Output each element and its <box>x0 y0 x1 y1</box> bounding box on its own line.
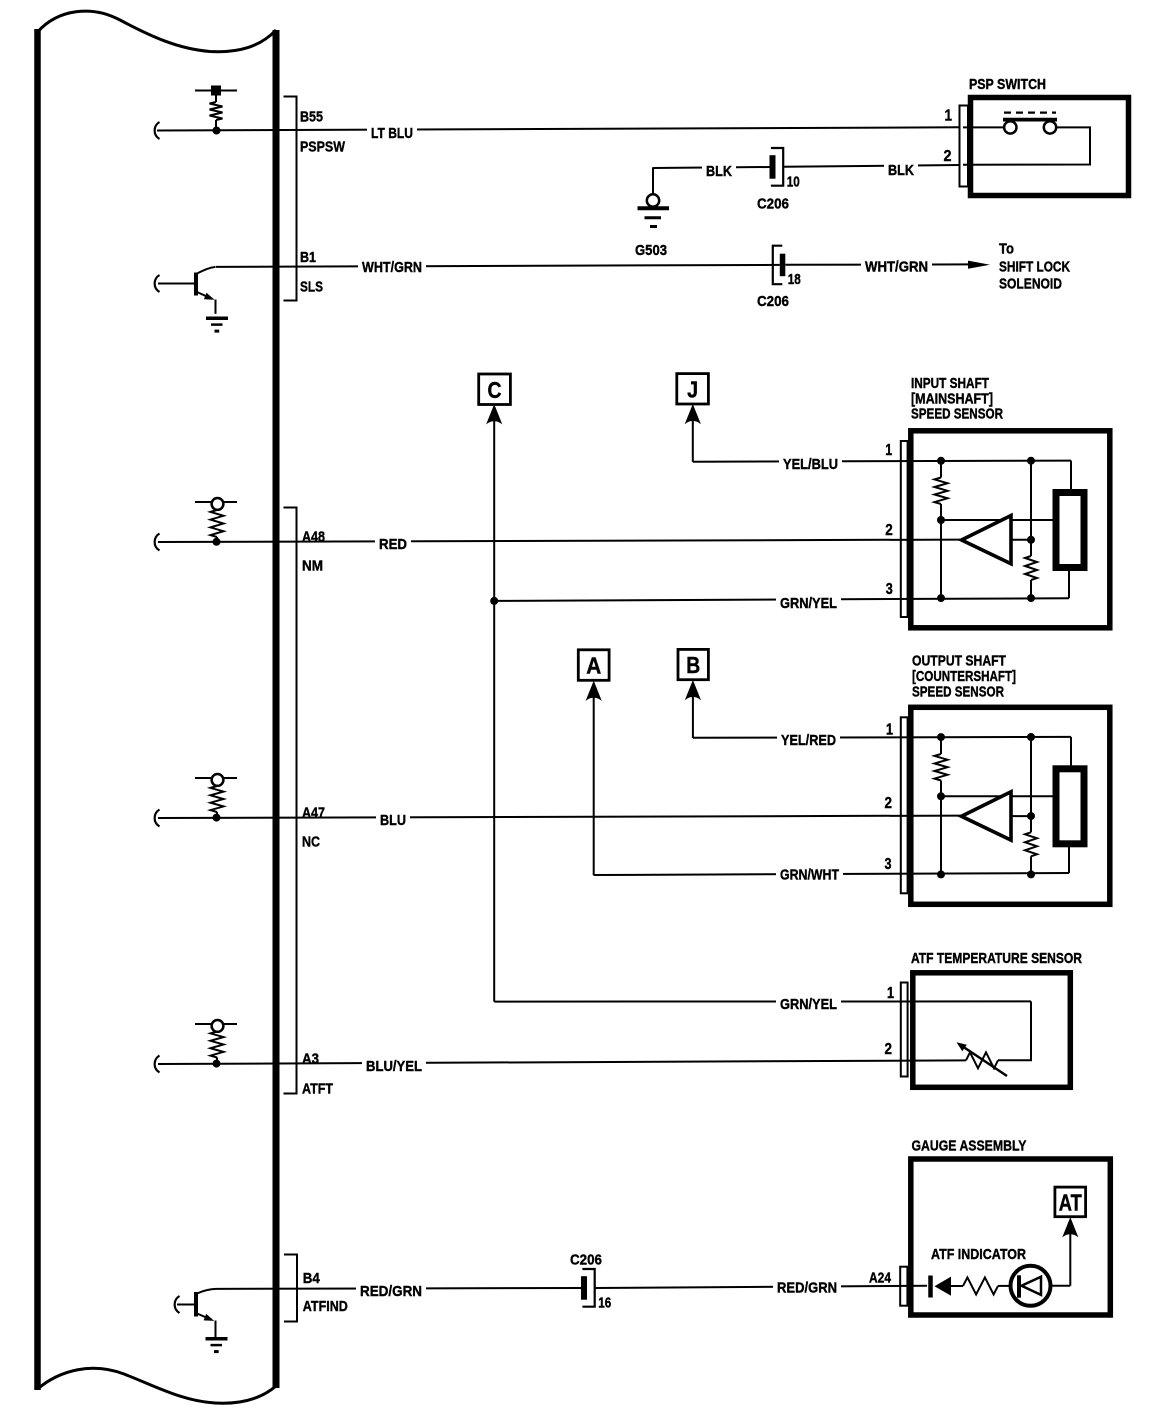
control module (left box, torn top/bottom edges) <box>38 11 277 1403</box>
gauge assembly box <box>911 1159 1111 1315</box>
output sensor resistor R-a (left) <box>935 737 948 874</box>
PSP switch blade travel (dashed) <box>1004 111 1056 113</box>
input speed sensor box <box>911 431 1110 628</box>
svg-text:2: 2 <box>885 1041 893 1058</box>
svg-text:BLU: BLU <box>380 812 406 829</box>
connector C206 pin 10 <box>770 148 800 191</box>
svg-text:1: 1 <box>886 722 893 739</box>
net A wire down to GRN/WHT <box>593 698 595 876</box>
input sensor bottom rail rise to pickup coil <box>1068 569 1070 598</box>
module pin bracket B4 <box>284 1255 297 1322</box>
junction dot left rail mid <box>937 516 945 524</box>
diode D1 (ATF indicator) <box>931 1276 952 1298</box>
svg-text:C206: C206 <box>757 293 789 310</box>
junction dot at A47 <box>213 814 221 822</box>
PSP switch contact 2 <box>1044 121 1056 133</box>
svg-text:BLK: BLK <box>888 162 914 179</box>
label BLU <box>376 809 410 829</box>
pull-up resistor at pin A48 <box>195 498 237 542</box>
PSP switch contact 1 <box>1004 121 1016 133</box>
svg-text:ATF INDICATOR: ATF INDICATOR <box>931 1246 1026 1263</box>
svg-text:OUTPUT SHAFT: OUTPUT SHAFT <box>912 653 1006 670</box>
ground symbol (Q2 emitter) <box>206 1337 228 1341</box>
wire resistor to indicator lamp <box>998 1285 1010 1287</box>
net C vertical wire <box>493 421 495 1002</box>
wire lamp to net AT <box>1051 1285 1071 1287</box>
connector C206 pin 16 <box>581 1269 611 1312</box>
pull-up resistor at pin A3 <box>195 1020 237 1064</box>
title INPUT SHAFT [MAINSHAFT] SPEED SENSOR <box>911 375 1003 423</box>
amp output wire (output sensor) <box>1011 815 1031 817</box>
PSP switch connector bar <box>960 106 969 187</box>
pickup coil (input sensor) <box>1056 493 1084 568</box>
svg-text:BLK: BLK <box>706 163 732 180</box>
arrow head for A <box>587 682 601 700</box>
svg-text:B1: B1 <box>300 249 316 266</box>
svg-text:C: C <box>488 377 502 403</box>
frayed wire end (B55 internal) <box>155 122 160 139</box>
svg-text:10: 10 <box>787 174 800 191</box>
wire BLK: ground G503 to connector C206-10 <box>653 167 770 195</box>
svg-text:[COUNTERSHAFT]: [COUNTERSHAFT] <box>912 668 1016 685</box>
svg-text:YEL/RED: YEL/RED <box>781 732 836 749</box>
junction dot at A48 <box>213 538 221 546</box>
PSP switch box <box>971 98 1129 196</box>
ATF sensor connector bar <box>901 983 908 1077</box>
title OUTPUT SHAFT [COUNTERSHAFT] SPEED SENSOR <box>912 653 1016 701</box>
svg-text:B55: B55 <box>300 109 323 126</box>
arrowhead to shift lock solenoid <box>968 261 990 269</box>
svg-text:BLU/YEL: BLU/YEL <box>366 1058 422 1075</box>
svg-text:18: 18 <box>788 271 801 288</box>
svg-text:1: 1 <box>887 985 894 1002</box>
frayed wire end (A3 internal) <box>155 1056 160 1073</box>
svg-text:G503: G503 <box>635 242 667 259</box>
label YEL/BLU <box>779 453 842 473</box>
resistor (ATF indicator series) <box>963 1277 998 1294</box>
ATF indicator lamp (LED in circle) <box>1011 1266 1051 1306</box>
junction dots output bottom rail <box>937 870 1035 878</box>
frayed wire end (A47 internal) <box>155 810 160 827</box>
output sensor connector bar <box>901 717 908 893</box>
wire RED: pin A48 to input sensor pin 2 (amp input) <box>158 540 961 542</box>
junction dots output top rail <box>937 733 1035 741</box>
input sensor connector bar <box>901 441 908 617</box>
op-amp U-in (comparator, input sensor) <box>962 516 1012 564</box>
svg-text:AT: AT <box>1059 1190 1082 1216</box>
arrow head for B <box>686 681 700 699</box>
wire GRN/WHT: net A to output sensor pin 3 / bottom rail <box>594 873 1069 875</box>
svg-text:C206: C206 <box>570 1252 602 1269</box>
thermistor arrow <box>957 1042 1008 1076</box>
net B wire down to YEL/RED <box>692 697 694 738</box>
svg-text:ATF TEMPERATURE SENSOR: ATF TEMPERATURE SENSOR <box>911 950 1082 967</box>
module pins bracket A48/A47/A3 <box>284 508 297 1094</box>
svg-text:GRN/YEL: GRN/YEL <box>780 595 837 612</box>
wire YEL/RED: net B to output sensor pin 1 / top rail <box>693 736 1071 739</box>
ATF sensor internal wire pin1 to thermistor <box>998 1001 1031 1060</box>
wire YEL/BLU: net J to input sensor pin 1 and top rail <box>693 461 1071 462</box>
svg-text:A24: A24 <box>869 1270 892 1287</box>
label BLK (right) <box>884 159 918 179</box>
output sensor bottom rail rise to pickup coil <box>1068 845 1070 873</box>
svg-text:2: 2 <box>944 148 952 165</box>
label GRN/YEL <box>776 592 841 612</box>
svg-text:INPUT SHAFT: INPUT SHAFT <box>911 375 989 392</box>
wire WHT/GRN: pin B1 to connector C206-18 <box>216 265 780 267</box>
amp output wire <box>1011 539 1031 541</box>
op-amp U-out (comparator, output sensor) <box>962 792 1012 840</box>
label BLK (left) <box>702 160 736 180</box>
PSP switch internal wire contact2 to pin 2 <box>963 127 1090 164</box>
label RED/GRN (right) <box>773 1277 841 1297</box>
svg-text:PSP SWITCH: PSP SWITCH <box>969 76 1046 93</box>
svg-text:SHIFT LOCK: SHIFT LOCK <box>999 259 1070 276</box>
connector arrow J (letter box) <box>677 374 709 404</box>
svg-text:B4: B4 <box>303 1270 321 1287</box>
svg-text:GRN/YEL: GRN/YEL <box>780 996 837 1013</box>
svg-text:WHT/GRN: WHT/GRN <box>865 259 928 276</box>
svg-text:To: To <box>999 241 1014 258</box>
arrow head for C <box>487 406 501 424</box>
pull-up resistor at pin A47 <box>195 774 237 818</box>
wire GRN/YEL: net C to ATF sensor pin 1 <box>494 1000 1031 1002</box>
svg-text:A48: A48 <box>302 529 325 546</box>
wire diode to resistor <box>951 1285 963 1287</box>
svg-text:3: 3 <box>885 856 892 873</box>
input sensor bias line to pickup <box>941 519 1054 521</box>
net AT vertical wire <box>1069 1233 1071 1286</box>
svg-text:GRN/WHT: GRN/WHT <box>780 867 839 884</box>
svg-text:ATFIND: ATFIND <box>303 1298 348 1315</box>
pickup coil (output sensor) <box>1056 769 1084 844</box>
svg-text:NM: NM <box>302 558 323 575</box>
svg-text:SPEED SENSOR: SPEED SENSOR <box>912 684 1004 701</box>
ground symbol (Q1 emitter) <box>206 317 228 321</box>
arrow head for AT <box>1063 1219 1077 1237</box>
svg-text:2: 2 <box>885 795 893 812</box>
label YEL/RED <box>777 729 840 749</box>
PSP switch pin 1 internal wire <box>963 126 1004 128</box>
svg-text:WHT/GRN: WHT/GRN <box>362 259 422 276</box>
label GRN/YEL (ATF) <box>776 993 841 1013</box>
svg-text:RED: RED <box>379 536 407 553</box>
output sensor bias line to pickup <box>941 795 1054 797</box>
connector C206 pin 18 <box>773 246 801 289</box>
ATF sensor box <box>913 973 1071 1088</box>
arrow head for J <box>686 405 700 423</box>
wire RED/GRN: C206-16 to gauge pin A24 <box>595 1286 927 1288</box>
label LT BLU <box>367 122 417 142</box>
svg-text:YEL/BLU: YEL/BLU <box>783 456 838 473</box>
junction dot left rail mid (output) <box>937 792 945 800</box>
junction dots input bottom rail <box>937 594 1035 602</box>
net J wire down to YEL/BLU <box>692 421 694 462</box>
svg-text:GAUGE ASSEMBLY: GAUGE ASSEMBLY <box>912 1138 1027 1155</box>
connector arrow A (letter box) <box>578 650 609 681</box>
label GRN/WHT <box>776 864 843 884</box>
svg-text:NC: NC <box>302 834 320 851</box>
svg-text:C206: C206 <box>757 196 789 213</box>
wire RED/GRN: pin B4 to connector C206-16 <box>216 1287 581 1290</box>
svg-text:RED/GRN: RED/GRN <box>360 1283 422 1300</box>
svg-text:1: 1 <box>945 108 953 125</box>
junction dot amp output (output sensor) <box>1027 812 1035 820</box>
svg-text:A47: A47 <box>302 805 325 822</box>
junction dot at A3 <box>213 1060 221 1068</box>
input sensor top rail drop to pickup coil <box>1070 461 1072 492</box>
input sensor resistor R-a (left) <box>935 461 948 598</box>
wire BLU: pin A47 to output sensor pin 2 (amp input) <box>158 816 961 818</box>
wire GRN/YEL: net C to input sensor pin 3 / bottom rail <box>494 598 1069 601</box>
output sensor top rail drop to pickup coil <box>1070 737 1072 769</box>
wire BLU/YEL: pin A3 to ATF sensor pin 2 <box>158 1060 966 1064</box>
pin label A24 <box>866 1267 895 1284</box>
svg-text:16: 16 <box>598 1295 611 1312</box>
transistor Q2 (ATF indicator driver, pin B4) <box>175 1289 216 1338</box>
connector arrow B (letter box) <box>678 649 708 679</box>
ground symbol G503 <box>638 208 670 226</box>
PSP switch blade (closed contact) <box>1003 118 1057 122</box>
junction dot on net C at GRN/YEL <box>490 597 498 605</box>
svg-text:RED/GRN: RED/GRN <box>777 1280 837 1297</box>
junction dot amp output <box>1027 536 1035 544</box>
junction dots input top rail <box>937 457 1035 465</box>
output speed sensor box <box>911 707 1110 904</box>
svg-text:PSPSW: PSPSW <box>300 139 346 156</box>
wire WHT/GRN: C206-18 to shift lock solenoid <box>786 263 972 265</box>
text To SHIFT LOCK SOLENOID <box>999 241 1070 293</box>
gauge connector bar <box>900 1267 907 1306</box>
svg-text:3: 3 <box>886 581 893 598</box>
input sensor right rail with resistor R-b <box>1025 461 1037 598</box>
svg-text:LT BLU: LT BLU <box>371 125 413 142</box>
svg-text:A: A <box>586 653 601 679</box>
pull-up resistor at pin B55 <box>195 86 237 132</box>
label WHT/GRN (left) <box>358 256 426 276</box>
svg-text:A3: A3 <box>302 1051 319 1068</box>
connector arrow C (letter box) <box>479 374 511 405</box>
svg-text:SPEED SENSOR: SPEED SENSOR <box>911 406 1003 423</box>
label BLU/YEL <box>362 1055 426 1075</box>
transistor Q1 (shift-lock solenoid driver, pin B1) <box>155 267 216 314</box>
svg-text:ATFT: ATFT <box>302 1081 333 1098</box>
label RED <box>375 533 411 553</box>
connector bracket B55/B1 (module pins) <box>284 97 297 301</box>
svg-text:SOLENOID: SOLENOID <box>999 276 1062 293</box>
thermistor (variable resistor) <box>966 1052 998 1068</box>
svg-text:2: 2 <box>885 522 893 539</box>
svg-text:J: J <box>687 376 698 402</box>
label RED/GRN (left) <box>356 1280 426 1300</box>
wire BLK: C206-10 to PSP switch pin 2 <box>784 165 960 167</box>
svg-text:B: B <box>686 652 700 678</box>
svg-text:1: 1 <box>885 442 892 459</box>
label WHT/GRN (right) <box>861 256 932 276</box>
ground terminal ring G503 <box>647 194 659 206</box>
wire LT BLU: module pin B55 to PSP switch pin 1 <box>157 127 960 130</box>
frayed wire end (A48 internal) <box>155 534 160 551</box>
connector arrow AT (letter box) <box>1055 1187 1086 1217</box>
svg-text:SLS: SLS <box>300 279 323 296</box>
junction dot at B55 resistor / wire <box>213 127 221 135</box>
output sensor right rail with resistor R-b <box>1025 737 1037 874</box>
